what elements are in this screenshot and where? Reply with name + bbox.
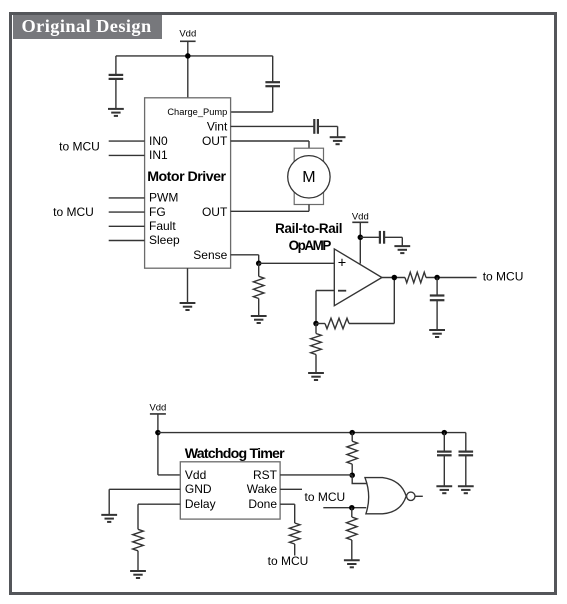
- svg-text:to MCU: to MCU: [268, 554, 309, 568]
- svg-text:to MCU: to MCU: [59, 140, 100, 154]
- svg-text:Vdd: Vdd: [185, 468, 206, 482]
- svg-text:Sense: Sense: [193, 248, 227, 262]
- svg-text:Vdd: Vdd: [149, 403, 166, 414]
- svg-text:to MCU: to MCU: [53, 205, 94, 219]
- svg-text:OUT: OUT: [202, 205, 228, 219]
- svg-text:to MCU: to MCU: [305, 490, 346, 504]
- svg-text:GND: GND: [185, 482, 212, 496]
- svg-text:Delay: Delay: [185, 497, 216, 511]
- svg-text:Wake: Wake: [247, 482, 278, 496]
- svg-text:OUT: OUT: [202, 134, 228, 148]
- svg-text:Charge_Pump: Charge_Pump: [167, 107, 227, 117]
- svg-text:M: M: [302, 169, 315, 186]
- svg-text:Rail-to-Rail: Rail-to-Rail: [275, 221, 342, 236]
- svg-text:to MCU: to MCU: [483, 270, 524, 284]
- svg-text:FG: FG: [149, 205, 166, 219]
- svg-text:Motor Driver: Motor Driver: [147, 169, 226, 185]
- svg-text:Watchdog Timer: Watchdog Timer: [185, 446, 285, 462]
- svg-text:PWM: PWM: [149, 191, 178, 205]
- svg-text:Vdd: Vdd: [179, 29, 196, 40]
- svg-text:IN1: IN1: [149, 148, 168, 162]
- svg-text:Done: Done: [248, 497, 277, 511]
- svg-text:OpAMP: OpAMP: [289, 238, 332, 253]
- svg-text:+: +: [338, 256, 346, 272]
- svg-text:RST: RST: [253, 468, 278, 482]
- svg-text:Fault: Fault: [149, 219, 176, 233]
- svg-text:IN0: IN0: [149, 134, 168, 148]
- svg-text:Vdd: Vdd: [352, 211, 369, 222]
- svg-text:Vint: Vint: [207, 120, 228, 134]
- svg-text:Sleep: Sleep: [149, 233, 180, 247]
